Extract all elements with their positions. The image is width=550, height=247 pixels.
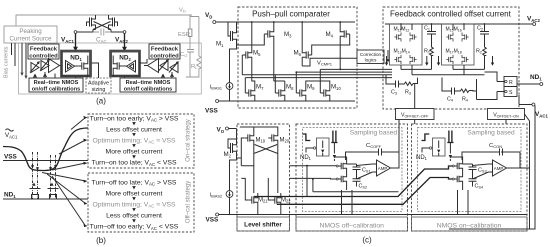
svg-text:Push–pull comparater: Push–pull comparater: [252, 10, 330, 19]
svg-text:VSS: VSS: [4, 154, 18, 161]
current source IBIAS1: [226, 83, 233, 90]
transistor M9: [296, 86, 306, 100]
wires amps to realtime box right: [162, 72, 174, 78]
transistor group M15-M18 box: [442, 24, 475, 65]
resistor RL zigzag: [197, 56, 201, 69]
svg-text:NMOS on–calibration: NMOS on–calibration: [437, 223, 502, 230]
svg-text:VSS: VSS: [206, 217, 220, 224]
svg-text:controlled: controlled: [29, 54, 58, 60]
svg-text:(a): (a): [96, 97, 106, 106]
op-amp driver right: [144, 59, 159, 73]
op-amp driver left: [49, 59, 60, 73]
wire routed bus level shifter to off-cal gates: [290, 166, 399, 197]
wire VD rail to comparator: [216, 21, 240, 23]
waveform step glyph on 2: [447, 131, 453, 143]
switch box off: [317, 138, 330, 156]
wire IBIAS2 to VSS: [219, 197, 240, 214]
node VAC1 terminal right: [519, 95, 532, 105]
waveform step glyph off 2: [331, 131, 337, 143]
wire M1 drain down and into comparator: [230, 45, 248, 83]
transistor cross-coupled pair right: [109, 15, 118, 30]
junction dots comparator rail: [273, 21, 275, 23]
wire comparator output buses to right: [242, 69, 392, 77]
wire connectors to strategy boxes: [42, 118, 86, 227]
wire cross coupling: [77, 22, 123, 33]
svg-text:NMOS off–calibration: NMOS off–calibration: [319, 223, 384, 230]
svg-text:CCON: CCON: [489, 143, 502, 149]
svg-text:Sampling based: Sampling based: [467, 130, 515, 137]
svg-text:M19: M19: [256, 138, 266, 144]
junction arrows on waveform: [31, 165, 57, 170]
svg-text:Sampling based: Sampling based: [350, 130, 398, 137]
op-amp inside ND2: [127, 61, 136, 73]
svg-text:ND1: ND1: [300, 155, 312, 161]
svg-text:AMP: AMP: [378, 166, 388, 171]
transistor pair on top: [454, 160, 462, 173]
real-time nmos box left: [29, 78, 83, 92]
junction M9 gate bus: [295, 71, 297, 73]
svg-text:on/off calibrations: on/off calibrations: [124, 87, 172, 93]
svg-text:Optimum timing; VAC ≈ VSS: Optimum timing; VAC ≈ VSS: [92, 201, 176, 208]
transistor M6: [302, 48, 312, 62]
op-amp inside ND1: [66, 61, 75, 73]
sampling based box off: [303, 128, 403, 212]
transistor M22: [271, 193, 281, 207]
wire VAC1 right side down: [449, 106, 535, 229]
transistor M21: [248, 193, 257, 207]
junction off-cal input 2: [312, 178, 314, 180]
transistor M4: [340, 27, 350, 41]
svg-text:Feedback: Feedback: [151, 47, 179, 53]
VOFFSET-ON box: [488, 109, 525, 120]
wire pair top to arrow: [334, 157, 346, 190]
svg-text:S: S: [509, 90, 513, 96]
correction logics box: [357, 50, 384, 64]
resistor ESR: [188, 29, 192, 37]
wire current arrow at box: [387, 50, 389, 60]
svg-text:Peaking: Peaking: [19, 28, 42, 35]
op-amp AMP off: [377, 160, 391, 176]
on-cal strategy box: [88, 114, 194, 168]
wire VO rail: [229, 128, 237, 130]
wire comparator gate risers: [245, 69, 320, 93]
svg-text:R: R: [509, 80, 513, 86]
svg-text:M20: M20: [280, 138, 290, 144]
svg-text:sizing: sizing: [92, 87, 106, 93]
waveform step glyph off 1: [303, 134, 311, 141]
peaking current source box: [4, 26, 57, 43]
svg-text:Turn–on too late; VAC < VSS: Turn–on too late; VAC < VSS: [91, 160, 176, 167]
wire current arrows: [427, 56, 493, 64]
level shifter box: [237, 124, 290, 231]
transistor M5: [242, 48, 252, 62]
wire VD rail section a: [16, 15, 192, 26]
svg-text:Less offset current: Less offset current: [106, 212, 162, 219]
transistor group M11-M14 box: [390, 24, 423, 65]
svg-text:CCOFF: CCOFF: [366, 143, 382, 149]
svg-text:AMP: AMP: [494, 166, 504, 171]
svg-text:Turn–off too early; VAC < VSS: Turn–off too early; VAC < VSS: [90, 224, 179, 231]
push-pull comparator box: [238, 7, 357, 108]
capacitor CAC: [94, 29, 110, 36]
wire on-cal amp out to right: [507, 167, 530, 169]
ND2 block: [111, 51, 140, 76]
transistor power NMOS ND2: [113, 59, 123, 73]
transistor power NMOS ND1: [78, 59, 88, 73]
wire comparator ground rail: [240, 100, 355, 102]
transistor M1 PMOS diode-connected: [228, 22, 237, 47]
node VAC2 terminal: [533, 23, 536, 26]
VOFFSET-OFF box: [396, 109, 435, 120]
wire level shifter internals: [240, 127, 281, 215]
op-amp variable right small: [160, 61, 168, 71]
svg-text:VD: VD: [179, 8, 186, 14]
capacitor CS2: [353, 179, 361, 187]
op-amp variable left second: [41, 61, 49, 71]
svg-text:controlled: controlled: [150, 54, 179, 60]
svg-text:CO: CO: [180, 52, 187, 58]
wire long VSS bus: [240, 214, 527, 216]
node VAC1 terminal: [74, 31, 77, 34]
svg-text:Level shifter: Level shifter: [244, 222, 282, 229]
svg-text:Off–cal strategy: Off–cal strategy: [185, 180, 192, 224]
op-amp variable right second: [170, 63, 178, 73]
transistor pair off bottom: [338, 173, 346, 186]
svg-text:Bias currents: Bias currents: [4, 46, 10, 78]
svg-text:Correction: Correction: [360, 52, 382, 57]
svg-text:ND1: ND1: [416, 155, 428, 161]
op-amp variable left small: [31, 63, 39, 73]
wire routed bus M21 M22 to on-cal diagonal: [254, 166, 452, 197]
wire M2 drain down: [230, 158, 242, 191]
junction M4 drain bus: [339, 69, 341, 71]
core outline box: [19, 43, 202, 94]
wire right rail: [186, 15, 199, 77]
svg-text:More offset current: More offset current: [106, 148, 163, 155]
op-amp AMP on: [493, 160, 507, 176]
feedback controlled box right: [149, 44, 180, 59]
off-cal strategy box: [88, 173, 194, 232]
capacitor CS4: [469, 179, 477, 187]
waveform step glyph on 1: [422, 134, 430, 141]
svg-text:logics: logics: [365, 57, 377, 62]
wire VAC1 down to ND1: [75, 34, 77, 49]
svg-text:Turn–off too late; VAC > VSS: Turn–off too late; VAC > VSS: [92, 179, 177, 186]
current source IBIAS2: [226, 191, 233, 198]
svg-text:More offset current: More offset current: [106, 190, 163, 197]
node VSS terminal upper: [216, 100, 219, 103]
svg-text:RL: RL: [191, 64, 198, 70]
wire VD rail comparator: [240, 21, 355, 23]
transistor pair off top: [338, 160, 346, 173]
svg-text:Adaptive: Adaptive: [88, 81, 109, 87]
adaptive sizing box: [86, 78, 111, 93]
svg-text:Turn–on too early; VAC > VSS: Turn–on too early; VAC > VSS: [90, 115, 179, 122]
node VAC2 terminal: [123, 31, 126, 34]
svg-text:Optimum timing; VAC ≈ VSS: Optimum timing; VAC ≈ VSS: [92, 137, 176, 144]
feedback controlled offset current box: [383, 7, 519, 109]
junction dots VAC2 rail: [431, 23, 433, 25]
capacitor CS3: [463, 164, 477, 179]
svg-text:(b): (b): [96, 236, 106, 245]
svg-text:ESR: ESR: [178, 32, 190, 38]
real-time nmos box right: [120, 78, 176, 92]
sampling based box on: [418, 128, 522, 212]
capacitor CS1: [347, 164, 361, 179]
nmos on-calibration box: [412, 124, 528, 231]
transistor M2 PMOS diode-connected: [228, 129, 237, 159]
node ND1 output: [517, 83, 540, 85]
svg-text:Current Source: Current Source: [10, 36, 53, 43]
node VSS terminal lower: [216, 213, 219, 216]
wire VAC2 down to ND2: [124, 34, 126, 49]
wire glyph2 to pair on: [449, 143, 451, 162]
transistor pair on bottom: [454, 173, 462, 186]
svg-text:Feedback: Feedback: [30, 47, 58, 53]
svg-text:(c): (c): [362, 236, 372, 245]
ND1 block: [62, 51, 91, 76]
feedback controlled box left: [28, 44, 59, 59]
wire VAC2 rail: [385, 23, 533, 25]
svg-text:VSS: VSS: [205, 108, 219, 115]
transistor M8: [275, 86, 285, 100]
svg-text:On–cal strategy: On–cal strategy: [185, 118, 192, 162]
transistor cross-coupled pair left: [87, 15, 96, 30]
svg-text:Real–time NMOS: Real–time NMOS: [126, 80, 171, 86]
svg-text:Real–time NMOS: Real–time NMOS: [34, 80, 79, 86]
switch box on: [433, 138, 446, 156]
svg-text:M22: M22: [281, 198, 291, 204]
svg-text:VCMP1: VCMP1: [317, 61, 333, 67]
svg-text:Feedback controlled offset cur: Feedback controlled offset current: [390, 10, 512, 19]
transistor M19: [244, 131, 254, 145]
wires amps to realtime box left: [34, 72, 56, 78]
svg-text:Less offset current: Less offset current: [106, 126, 162, 133]
wire comparator internals: [237, 22, 358, 86]
SR latch: [504, 77, 517, 97]
wire sampling dash-dot lines: [33, 152, 56, 199]
transistor M3: [264, 27, 274, 41]
junction off-cal input 1: [306, 165, 308, 167]
capacitor C4: [445, 88, 459, 95]
wire VOFFSET-OFF up: [399, 120, 415, 153]
wire IBIAS1 to VSS: [219, 89, 240, 101]
transistor M10: [320, 86, 330, 100]
wire group connections: [401, 24, 485, 75]
wire latch inputs: [477, 72, 505, 100]
resistor R4: [459, 89, 474, 93]
wire C3R3 C4R4 nets: [386, 75, 477, 109]
capacitor CO: [187, 50, 194, 53]
svg-text:on/off calibrations: on/off calibrations: [32, 87, 80, 93]
wire pair on to arrow: [450, 157, 462, 190]
bias current wires: [12, 43, 27, 77]
nmos off-calibration box: [296, 124, 408, 231]
transistor M7: [245, 86, 255, 100]
wire VOFFSET-ON riser: [505, 120, 507, 125]
transistor M20: [268, 131, 278, 145]
wire ND blocks bottom connections: [76, 59, 148, 78]
wire off-cal grounds: [342, 190, 469, 215]
svg-text:M21: M21: [258, 198, 268, 204]
wire waveform VAC1: [3, 128, 88, 171]
capacitor C3: [389, 81, 403, 88]
resistor R3: [403, 82, 418, 86]
wire glyph2 to pair: [333, 143, 335, 162]
